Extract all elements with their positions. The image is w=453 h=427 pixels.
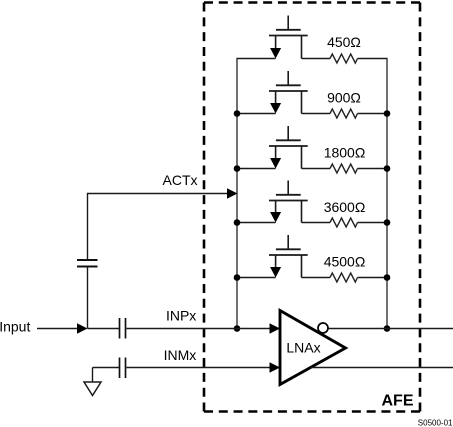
wire C1 to input node [87,267,89,328]
label 3600 ohm [324,199,366,215]
op-amp LNAx [280,311,346,385]
label AFE [382,393,414,410]
svg-text:3600Ω: 3600Ω [324,199,366,215]
svg-text:ACTx: ACTx [163,172,198,188]
wire INMx [127,362,281,372]
resistor 1800 ohm [330,164,358,173]
transistor M4 [269,181,308,223]
label INPx [166,308,196,324]
svg-text:4500Ω: 4500Ω [324,253,366,269]
label S0500-01 [418,419,453,427]
resistor 4500 ohm [330,273,358,282]
label 1800 ohm [324,144,366,160]
wire output plus [329,328,453,330]
svg-text:LNAx: LNAx [286,339,320,355]
node junction dots left bus [234,110,241,332]
svg-text:Input: Input [0,319,30,335]
wire branch 2 [237,113,388,115]
wire ground to C3 [93,367,120,369]
resistor 3600 ohm [330,218,358,227]
wire ACTx feedback vertical [87,193,89,259]
label 4500 ohm [324,253,366,269]
svg-text:900Ω: 900Ω [327,89,361,105]
svg-text:AFE: AFE [382,393,414,410]
capacitor C3 (INMx series) [120,358,126,379]
svg-text:INMx: INMx [164,347,197,363]
label ACTx [163,172,198,188]
capacitor C2 (INPx series) [120,318,126,339]
svg-text:INPx: INPx [166,308,196,324]
ground [84,368,101,396]
svg-text:1800Ω: 1800Ω [324,144,366,160]
wire input node to C2 [88,328,120,330]
svg-text:S0500-01: S0500-01 [418,419,453,427]
inverting output bubble [318,323,328,333]
label Input [0,319,30,335]
resistor 900 ohm [330,109,358,118]
resistor 450 ohm [330,54,358,63]
right bus wire [386,59,388,329]
wire Input [37,323,88,333]
label 450 ohm [327,34,361,50]
left bus wire [236,59,238,329]
wire INPx [127,323,281,333]
svg-text:450Ω: 450Ω [327,34,361,50]
label 900 ohm [327,89,361,105]
wire branch 3 [237,168,388,170]
capacitor C1 (feedback) [77,260,98,267]
label INMx [164,347,197,363]
wire output minus [311,367,453,369]
AFE boundary box [204,3,420,412]
wire branch 4 [237,222,388,224]
transistor M5 [269,235,308,278]
transistor M2 [269,71,308,114]
wire branch 1 [237,58,388,60]
transistor M1 [269,16,308,59]
node junction dots right bus [384,110,391,332]
wire ACTx [88,188,238,198]
transistor M3 [269,126,308,169]
wire branch 5 [237,277,388,279]
